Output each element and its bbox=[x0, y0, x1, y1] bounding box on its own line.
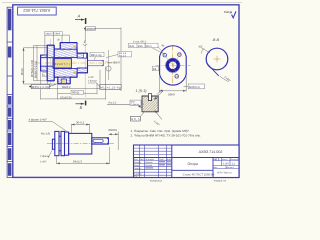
leader arrows bbox=[154, 92, 163, 100]
flange vertical centerline bbox=[50, 39, 52, 87]
svg-text:Ø30h8: Ø30h8 bbox=[87, 27, 96, 31]
svg-text:1. Покрытие: Хим. Окс. прм. (к: 1. Покрытие: Хим. Окс. прм. (кроме М8)* bbox=[131, 129, 190, 133]
bore cavity (tan) bbox=[53, 59, 71, 68]
svg-text:М12×1,25-6g: М12×1,25-6g bbox=[100, 85, 120, 89]
keyway slot on thin shaft bbox=[93, 139, 103, 142]
lower right dimension bbox=[220, 76, 229, 82]
svg-text:№ докум.: № докум. bbox=[145, 158, 155, 161]
svg-text:Ra 3,2: Ra 3,2 bbox=[119, 55, 127, 58]
angle dimension top left bbox=[201, 48, 210, 54]
left vertical dimensions bbox=[24, 46, 58, 85]
svg-text:82±0,2: 82±0,2 bbox=[62, 85, 71, 89]
centerlines bbox=[156, 64, 191, 66]
upper main view: dimension above with leader box bbox=[85, 27, 121, 92]
svg-text:Ø5,5: Ø5,5 bbox=[146, 45, 152, 48]
svg-text:Ra 1,6(: Ra 1,6( bbox=[41, 131, 50, 135]
svg-text:Копировал: Копировал bbox=[150, 180, 163, 183]
header row texts bbox=[134, 158, 172, 178]
svg-text:R8: R8 bbox=[153, 68, 157, 71]
centerline bbox=[47, 143, 114, 145]
main cylinder bbox=[69, 133, 92, 154]
part outline bbox=[41, 43, 88, 84]
right block bbox=[213, 158, 239, 169]
svg-text:Изм: Изм bbox=[134, 158, 138, 161]
svg-text:Ø68H7(-0,01): Ø68H7(-0,01) bbox=[34, 61, 38, 78]
flange section A-A view bbox=[129, 40, 191, 96]
M thread dark label bbox=[29, 86, 31, 88]
svg-text:1×45°: 1×45° bbox=[40, 161, 47, 164]
svg-text:102±0,35: 102±0,35 bbox=[60, 95, 72, 99]
page top edge shadow bbox=[2, 2, 242, 4]
svg-text:АХВЗ.714.002: АХВЗ.714.002 bbox=[23, 8, 51, 13]
svg-text:Петров: Петров bbox=[145, 164, 153, 167]
svg-text:Разраб.: Разраб. bbox=[134, 161, 142, 164]
section mark A (top) bbox=[75, 13, 86, 24]
svg-text:АХВЗ.714.002: АХВЗ.714.002 bbox=[199, 150, 223, 154]
svg-text:Формат А4: Формат А4 bbox=[214, 180, 227, 183]
svg-text:Ø30: Ø30 bbox=[138, 45, 143, 48]
right cylinder top wall bbox=[77, 53, 87, 58]
vertical section line through part bbox=[84, 42, 86, 97]
neck groove bbox=[59, 136, 61, 151]
svg-text:58h9: 58h9 bbox=[54, 33, 60, 36]
title block (osnovnaya nadpis) bbox=[134, 145, 240, 183]
name cell bbox=[212, 158, 214, 178]
flat chord bbox=[207, 63, 219, 76]
svg-text:Ø45: Ø45 bbox=[129, 45, 134, 48]
right side leader labels bbox=[118, 52, 132, 57]
body top wall bbox=[54, 49, 77, 58]
drawing frame bbox=[13, 5, 239, 178]
left label box bbox=[130, 100, 141, 105]
svg-text:1: 1 bbox=[84, 40, 86, 44]
hatched walls bbox=[41, 43, 88, 84]
svg-text:Масштаб: Масштаб bbox=[230, 158, 238, 161]
thin shaft bbox=[92, 138, 109, 144]
svg-text:А: А bbox=[77, 13, 81, 18]
svg-text:Иванов: Иванов bbox=[145, 161, 153, 164]
circle bbox=[206, 48, 228, 70]
right cylinder bottom wall bbox=[77, 68, 87, 73]
shaft outline bbox=[52, 131, 108, 155]
svg-text:Т.контр.: Т.контр. bbox=[134, 167, 142, 170]
body bottom wall bbox=[54, 69, 77, 78]
svg-text:0,007: 0,007 bbox=[223, 162, 230, 165]
left table verticals bbox=[139, 145, 166, 178]
svg-text:М36×1,5-6Н: М36×1,5-6Н bbox=[32, 85, 49, 89]
small projected hole circle bbox=[106, 66, 111, 71]
left stub bbox=[52, 139, 54, 149]
top dimensions bbox=[45, 35, 70, 54]
bottom boss thread slot bbox=[61, 79, 66, 84]
svg-text:Лист: Лист bbox=[213, 166, 217, 169]
svg-text:4 отв. Ø5,5: 4 отв. Ø5,5 bbox=[133, 40, 147, 43]
svg-text:М8×1-6g: М8×1-6g bbox=[91, 54, 102, 57]
top designation stamp box bbox=[18, 7, 57, 15]
svg-text:Сталь 45 ГОСТ 1050-88: Сталь 45 ГОСТ 1050-88 bbox=[183, 173, 215, 177]
svg-text:Пров.: Пров. bbox=[134, 164, 140, 167]
upper main view of housing (section) bbox=[20, 32, 132, 111]
left collar bbox=[41, 55, 48, 58]
svg-text:Ra0,8: Ra0,8 bbox=[224, 10, 232, 14]
section mark B bbox=[76, 101, 86, 110]
svg-text:4 фаски 1×45°: 4 фаски 1×45° bbox=[29, 117, 48, 121]
left margin stamp rotated texts bbox=[8, 9, 11, 176]
svg-text:1 (5:1): 1 (5:1) bbox=[136, 89, 148, 93]
inner bore lines right bbox=[41, 58, 88, 68]
svg-text:Опора: Опора bbox=[188, 162, 199, 166]
left small label bbox=[152, 66, 158, 70]
notes two lines bbox=[131, 129, 201, 138]
thread label box bbox=[184, 86, 188, 88]
svg-text:R0,5: R0,5 bbox=[131, 117, 140, 121]
disc 3 bbox=[65, 132, 69, 155]
thin threaded stub bbox=[88, 60, 104, 66]
svg-text:Ø8H7: Ø8H7 bbox=[113, 61, 121, 64]
svg-text:30-0,2: 30-0,2 bbox=[76, 121, 85, 125]
svg-text:14js6: 14js6 bbox=[45, 33, 52, 36]
thread label dark box right bbox=[100, 84, 121, 89]
dim 30 above bbox=[72, 124, 90, 133]
detail 1 (5:1) bbox=[107, 89, 163, 127]
svg-text:Б: Б bbox=[80, 105, 83, 110]
svg-text:А-А: А-А bbox=[212, 37, 220, 42]
roughness symbol top right bbox=[224, 10, 236, 18]
outer border bbox=[134, 145, 240, 178]
svg-text:Ra 3,2: Ra 3,2 bbox=[109, 101, 117, 104]
svg-text:2. *Масло ВНИИ НП-401 ТУ 38-10: 2. *Масло ВНИИ НП-401 ТУ 38-101-701-78 в… bbox=[131, 134, 201, 138]
bottom dark label bbox=[131, 116, 141, 121]
svg-text:2:1: 2:1 bbox=[232, 162, 236, 165]
svg-text:Ø110: Ø110 bbox=[20, 68, 24, 75]
bottom dimension 56 bbox=[160, 75, 187, 92]
svg-text:НГТУ ТМС-41: НГТУ ТМС-41 bbox=[217, 172, 232, 175]
svg-text:Лит.: Лит. bbox=[213, 158, 217, 161]
left margin stamp column bbox=[7, 7, 13, 177]
center cross bbox=[214, 58, 221, 60]
flange outline bbox=[160, 46, 187, 85]
disc 1 bbox=[55, 131, 59, 155]
radial hole at section line bbox=[83, 53, 86, 58]
svg-text:Ø10h9: Ø10h9 bbox=[109, 128, 118, 132]
bottom dimension 84 bbox=[57, 147, 110, 164]
svg-text:Лист: Лист bbox=[140, 158, 145, 161]
svg-text:84±0,3: 84±0,3 bbox=[73, 160, 82, 164]
horizontal centerline bbox=[36, 62, 112, 64]
designation cell bbox=[172, 157, 239, 159]
radial construction lines bbox=[163, 53, 173, 65]
hatched keyway section bbox=[142, 96, 158, 112]
svg-text:Масса: Масса bbox=[222, 158, 229, 161]
bolt holes bbox=[163, 53, 167, 57]
svg-text:Подп.: Подп. bbox=[159, 158, 165, 161]
svg-text:Ø24H7(⁵): Ø24H7(⁵) bbox=[54, 63, 70, 66]
svg-text:45°: 45° bbox=[199, 45, 203, 49]
svg-text:96h11: 96h11 bbox=[72, 90, 80, 94]
bottom shaft view bbox=[29, 117, 119, 164]
svg-text:2 фаски: 2 фаски bbox=[131, 103, 140, 106]
center bore ring bbox=[166, 58, 181, 73]
svg-text:Утв.: Утв. bbox=[134, 175, 138, 178]
top boss bbox=[60, 43, 77, 50]
svg-text:М20×1,5: М20×1,5 bbox=[189, 85, 200, 89]
left table horizontals bbox=[134, 148, 172, 175]
disc 2 bbox=[61, 131, 65, 155]
svg-text:Листов 1: Листов 1 bbox=[226, 166, 234, 169]
bottom dimensions bbox=[41, 67, 106, 100]
flange plate bbox=[47, 45, 54, 58]
thread tick marks orange bbox=[74, 46, 77, 47]
small circle view B bbox=[184, 45, 232, 89]
svg-text:56h9: 56h9 bbox=[168, 93, 175, 97]
svg-text:2 фаски: 2 фаски bbox=[88, 80, 98, 83]
bottom boss with thread bbox=[58, 77, 70, 84]
